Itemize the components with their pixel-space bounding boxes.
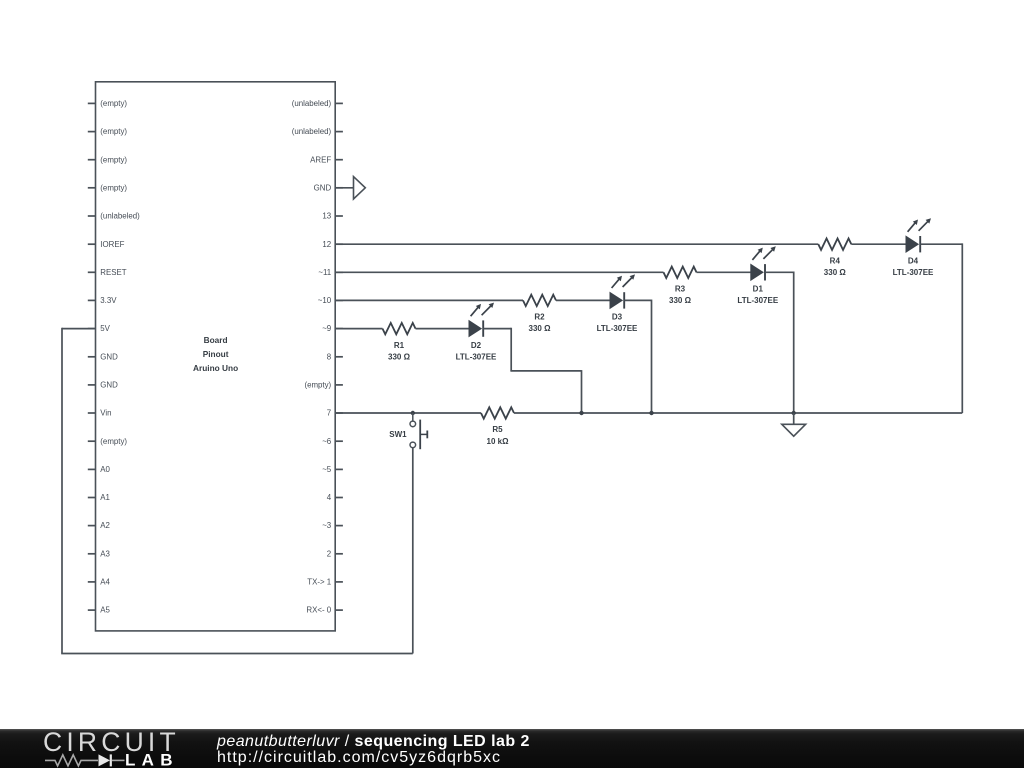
pin right 3 AREF <box>310 155 343 164</box>
pin right 15 4 <box>327 493 343 502</box>
board U1 Arduino Uno pinout outline <box>96 82 336 631</box>
wire vertical D2 step down <box>510 328 512 371</box>
resistor R3 <box>664 267 697 278</box>
pin left 19 A5 <box>88 606 111 615</box>
svg-text:GND: GND <box>314 183 332 192</box>
svg-text:A2: A2 <box>100 521 110 530</box>
svg-text:R1: R1 <box>394 341 405 350</box>
junction D3 drop node <box>649 411 653 415</box>
junction ground node <box>792 411 796 415</box>
junction D2 drop node <box>579 411 583 415</box>
svg-text:(unlabeled): (unlabeled) <box>100 212 140 221</box>
svg-text:2: 2 <box>327 549 331 558</box>
net flag GND output arrow <box>354 177 366 199</box>
svg-text:TX-> 1: TX-> 1 <box>307 578 331 587</box>
svg-text:D3: D3 <box>612 313 623 322</box>
wire pin ~11 to R3 <box>335 271 663 273</box>
pin right 19 RX<- 0 <box>306 606 342 615</box>
pin left 12 Vin <box>88 409 112 418</box>
svg-text:LAB: LAB <box>125 751 179 769</box>
resistor R1 <box>383 323 416 334</box>
pin right 6 12 <box>322 240 342 249</box>
svg-text:13: 13 <box>322 212 331 221</box>
svg-text:A4: A4 <box>100 578 110 587</box>
svg-text:Pinout: Pinout <box>203 349 229 359</box>
svg-text:LTL-307EE: LTL-307EE <box>456 352 497 361</box>
svg-text:~3: ~3 <box>322 521 332 530</box>
svg-text:R5: R5 <box>492 425 503 434</box>
svg-text:Vin: Vin <box>100 409 111 418</box>
LED D3 <box>610 274 635 308</box>
wire GND pin to net flag <box>335 187 353 189</box>
wire pin 7 to R5 <box>335 412 481 414</box>
svg-text:LTL-307EE: LTL-307EE <box>597 324 638 333</box>
svg-text:GND: GND <box>100 381 118 390</box>
wire vertical D3 drop to bottom net <box>651 300 653 413</box>
svg-text:7: 7 <box>327 409 331 418</box>
pin left 11 GND <box>88 381 118 390</box>
resistor R5 <box>481 407 514 418</box>
svg-text:(empty): (empty) <box>100 437 127 446</box>
pin left 3 (empty) <box>88 155 128 164</box>
svg-text:330 Ω: 330 Ω <box>669 296 692 305</box>
wire junction stub down to SW1 top terminal <box>412 413 414 421</box>
pin right 11 (empty) <box>304 381 342 390</box>
svg-text:330 Ω: 330 Ω <box>824 268 847 277</box>
wire R5 to right end of bottom net <box>514 412 962 414</box>
wire R3 to D1 <box>697 271 751 273</box>
svg-text:10 kΩ: 10 kΩ <box>487 437 510 446</box>
svg-text:A0: A0 <box>100 465 110 474</box>
label D4 LTL-307EE <box>893 256 934 277</box>
svg-text:D2: D2 <box>471 341 482 350</box>
pin left 10 GND <box>88 352 118 361</box>
svg-text:RX<- 0: RX<- 0 <box>306 606 331 615</box>
pin left 1 (empty) <box>88 99 128 108</box>
svg-text:R3: R3 <box>675 285 686 294</box>
pin right 7 ~11 <box>318 268 343 277</box>
pin left 2 (empty) <box>88 127 128 136</box>
svg-text:Aruino Uno: Aruino Uno <box>193 363 238 373</box>
svg-text:~5: ~5 <box>322 465 332 474</box>
pin left 14 A0 <box>88 465 111 474</box>
label R5 10 kOhm <box>487 425 510 446</box>
resistor R2 <box>523 295 556 306</box>
footer url http://circuitlab.com/cv5yz6dqrb5xc <box>217 750 501 765</box>
pin right 12 7 <box>327 409 343 418</box>
resistor R4 <box>818 239 851 250</box>
wire R2 to D3 <box>556 299 610 301</box>
pin left 18 A4 <box>88 578 111 587</box>
pin right 18 TX-> 1 <box>307 578 343 587</box>
svg-text:D1: D1 <box>753 285 764 294</box>
pin left 13 (empty) <box>88 437 128 446</box>
svg-text:5V: 5V <box>100 324 110 333</box>
pin left 4 (empty) <box>88 183 128 192</box>
ground GND symbol <box>782 413 806 436</box>
pin right 10 8 <box>327 352 343 361</box>
pin left 5 (unlabeled) <box>88 212 140 221</box>
svg-text:A5: A5 <box>100 606 110 615</box>
pin right 8 ~10 <box>318 296 343 305</box>
svg-text:(unlabeled): (unlabeled) <box>292 127 332 136</box>
svg-text:8: 8 <box>327 352 332 361</box>
pin right 5 13 <box>322 212 342 221</box>
LED D4 <box>906 218 931 252</box>
svg-text:(empty): (empty) <box>100 183 127 192</box>
svg-text:R4: R4 <box>830 256 841 265</box>
svg-text:A1: A1 <box>100 493 110 502</box>
pin right 16 ~3 <box>322 521 343 530</box>
junction SW1 top node <box>411 411 415 415</box>
svg-text:GND: GND <box>100 352 118 361</box>
pin right 13 ~6 <box>322 437 343 446</box>
wire D4 to right corner <box>920 243 962 245</box>
pushbutton SW1 <box>410 420 427 450</box>
wire vertical D1 drop to ground junction <box>793 271 795 413</box>
svg-text:AREF: AREF <box>310 155 331 164</box>
svg-text:4: 4 <box>327 493 332 502</box>
pin left 17 A3 <box>88 549 111 558</box>
wire right vertical drop to bottom net <box>961 243 963 413</box>
svg-text:SW1: SW1 <box>389 430 407 439</box>
wire left rail vertical <box>61 328 63 654</box>
wire vertical D2 drop to bottom net <box>581 370 583 413</box>
svg-text:(empty): (empty) <box>100 155 127 164</box>
pin right 9 ~9 <box>322 324 343 333</box>
svg-text:12: 12 <box>322 240 331 249</box>
svg-text:D4: D4 <box>908 256 919 265</box>
wire SW1 bottom terminal down <box>412 448 414 654</box>
svg-text:Board: Board <box>204 335 228 345</box>
svg-text:(empty): (empty) <box>304 381 331 390</box>
svg-text:330 Ω: 330 Ω <box>388 352 411 361</box>
board title label Board Pinout Aruino Uno <box>193 335 238 373</box>
svg-text:(empty): (empty) <box>100 99 127 108</box>
pin right 2 (unlabeled) <box>292 127 343 136</box>
svg-text:330 Ω: 330 Ω <box>529 324 552 333</box>
pin left 16 A2 <box>88 521 110 530</box>
svg-text:~9: ~9 <box>322 324 332 333</box>
label D1 LTL-307EE <box>737 285 778 306</box>
wire bottom return to SW1 <box>61 653 413 655</box>
pin left 15 A1 <box>88 493 110 502</box>
label R2 330 Ohm <box>529 313 552 334</box>
wire D2 to first corner <box>483 328 511 330</box>
CircuitLab logo <box>0 726 200 768</box>
pin left 9 5V <box>88 324 111 333</box>
label D2 LTL-307EE <box>456 341 497 362</box>
svg-text:RESET: RESET <box>100 268 126 277</box>
label R4 330 Ohm <box>824 256 847 277</box>
svg-text:IOREF: IOREF <box>100 240 124 249</box>
wire pin ~10 to R2 <box>335 299 523 301</box>
pin right 1 (unlabeled) <box>292 99 343 108</box>
wire 5V pin to left rail <box>62 328 96 330</box>
svg-text:A3: A3 <box>100 549 110 558</box>
wire D3 to corner <box>624 299 651 301</box>
svg-text:LTL-307EE: LTL-307EE <box>737 296 778 305</box>
wire pin 12 to R4 <box>335 243 818 245</box>
pin left 8 3.3V <box>88 296 117 305</box>
pin right 17 2 <box>327 549 343 558</box>
pin right 14 ~5 <box>322 465 343 474</box>
pin left 6 IOREF <box>88 240 125 249</box>
svg-text:~11: ~11 <box>318 268 331 277</box>
label D3 LTL-307EE <box>597 313 638 334</box>
svg-text:3.3V: 3.3V <box>100 296 117 305</box>
footer title peanutbutterluvr / sequencing LED lab 2 <box>217 734 530 749</box>
wire R4 to D4 <box>851 243 906 245</box>
svg-text:LTL-307EE: LTL-307EE <box>893 268 934 277</box>
svg-text:(unlabeled): (unlabeled) <box>292 99 332 108</box>
pin right 4 GND <box>314 183 343 192</box>
wire pin ~9 to R1 <box>335 328 382 330</box>
svg-text:~10: ~10 <box>318 296 332 305</box>
wire horizontal D2 step across <box>510 370 581 372</box>
wire R1 to D2 <box>416 328 470 330</box>
svg-text:~6: ~6 <box>322 437 332 446</box>
wire D1 to corner <box>765 271 794 273</box>
pin left 7 RESET <box>88 268 127 277</box>
label R1 330 Ohm <box>388 341 411 362</box>
label R3 330 Ohm <box>669 285 692 306</box>
LED D2 <box>469 303 494 337</box>
LED D1 <box>751 246 776 280</box>
svg-text:(empty): (empty) <box>100 127 127 136</box>
svg-text:R2: R2 <box>534 313 545 322</box>
